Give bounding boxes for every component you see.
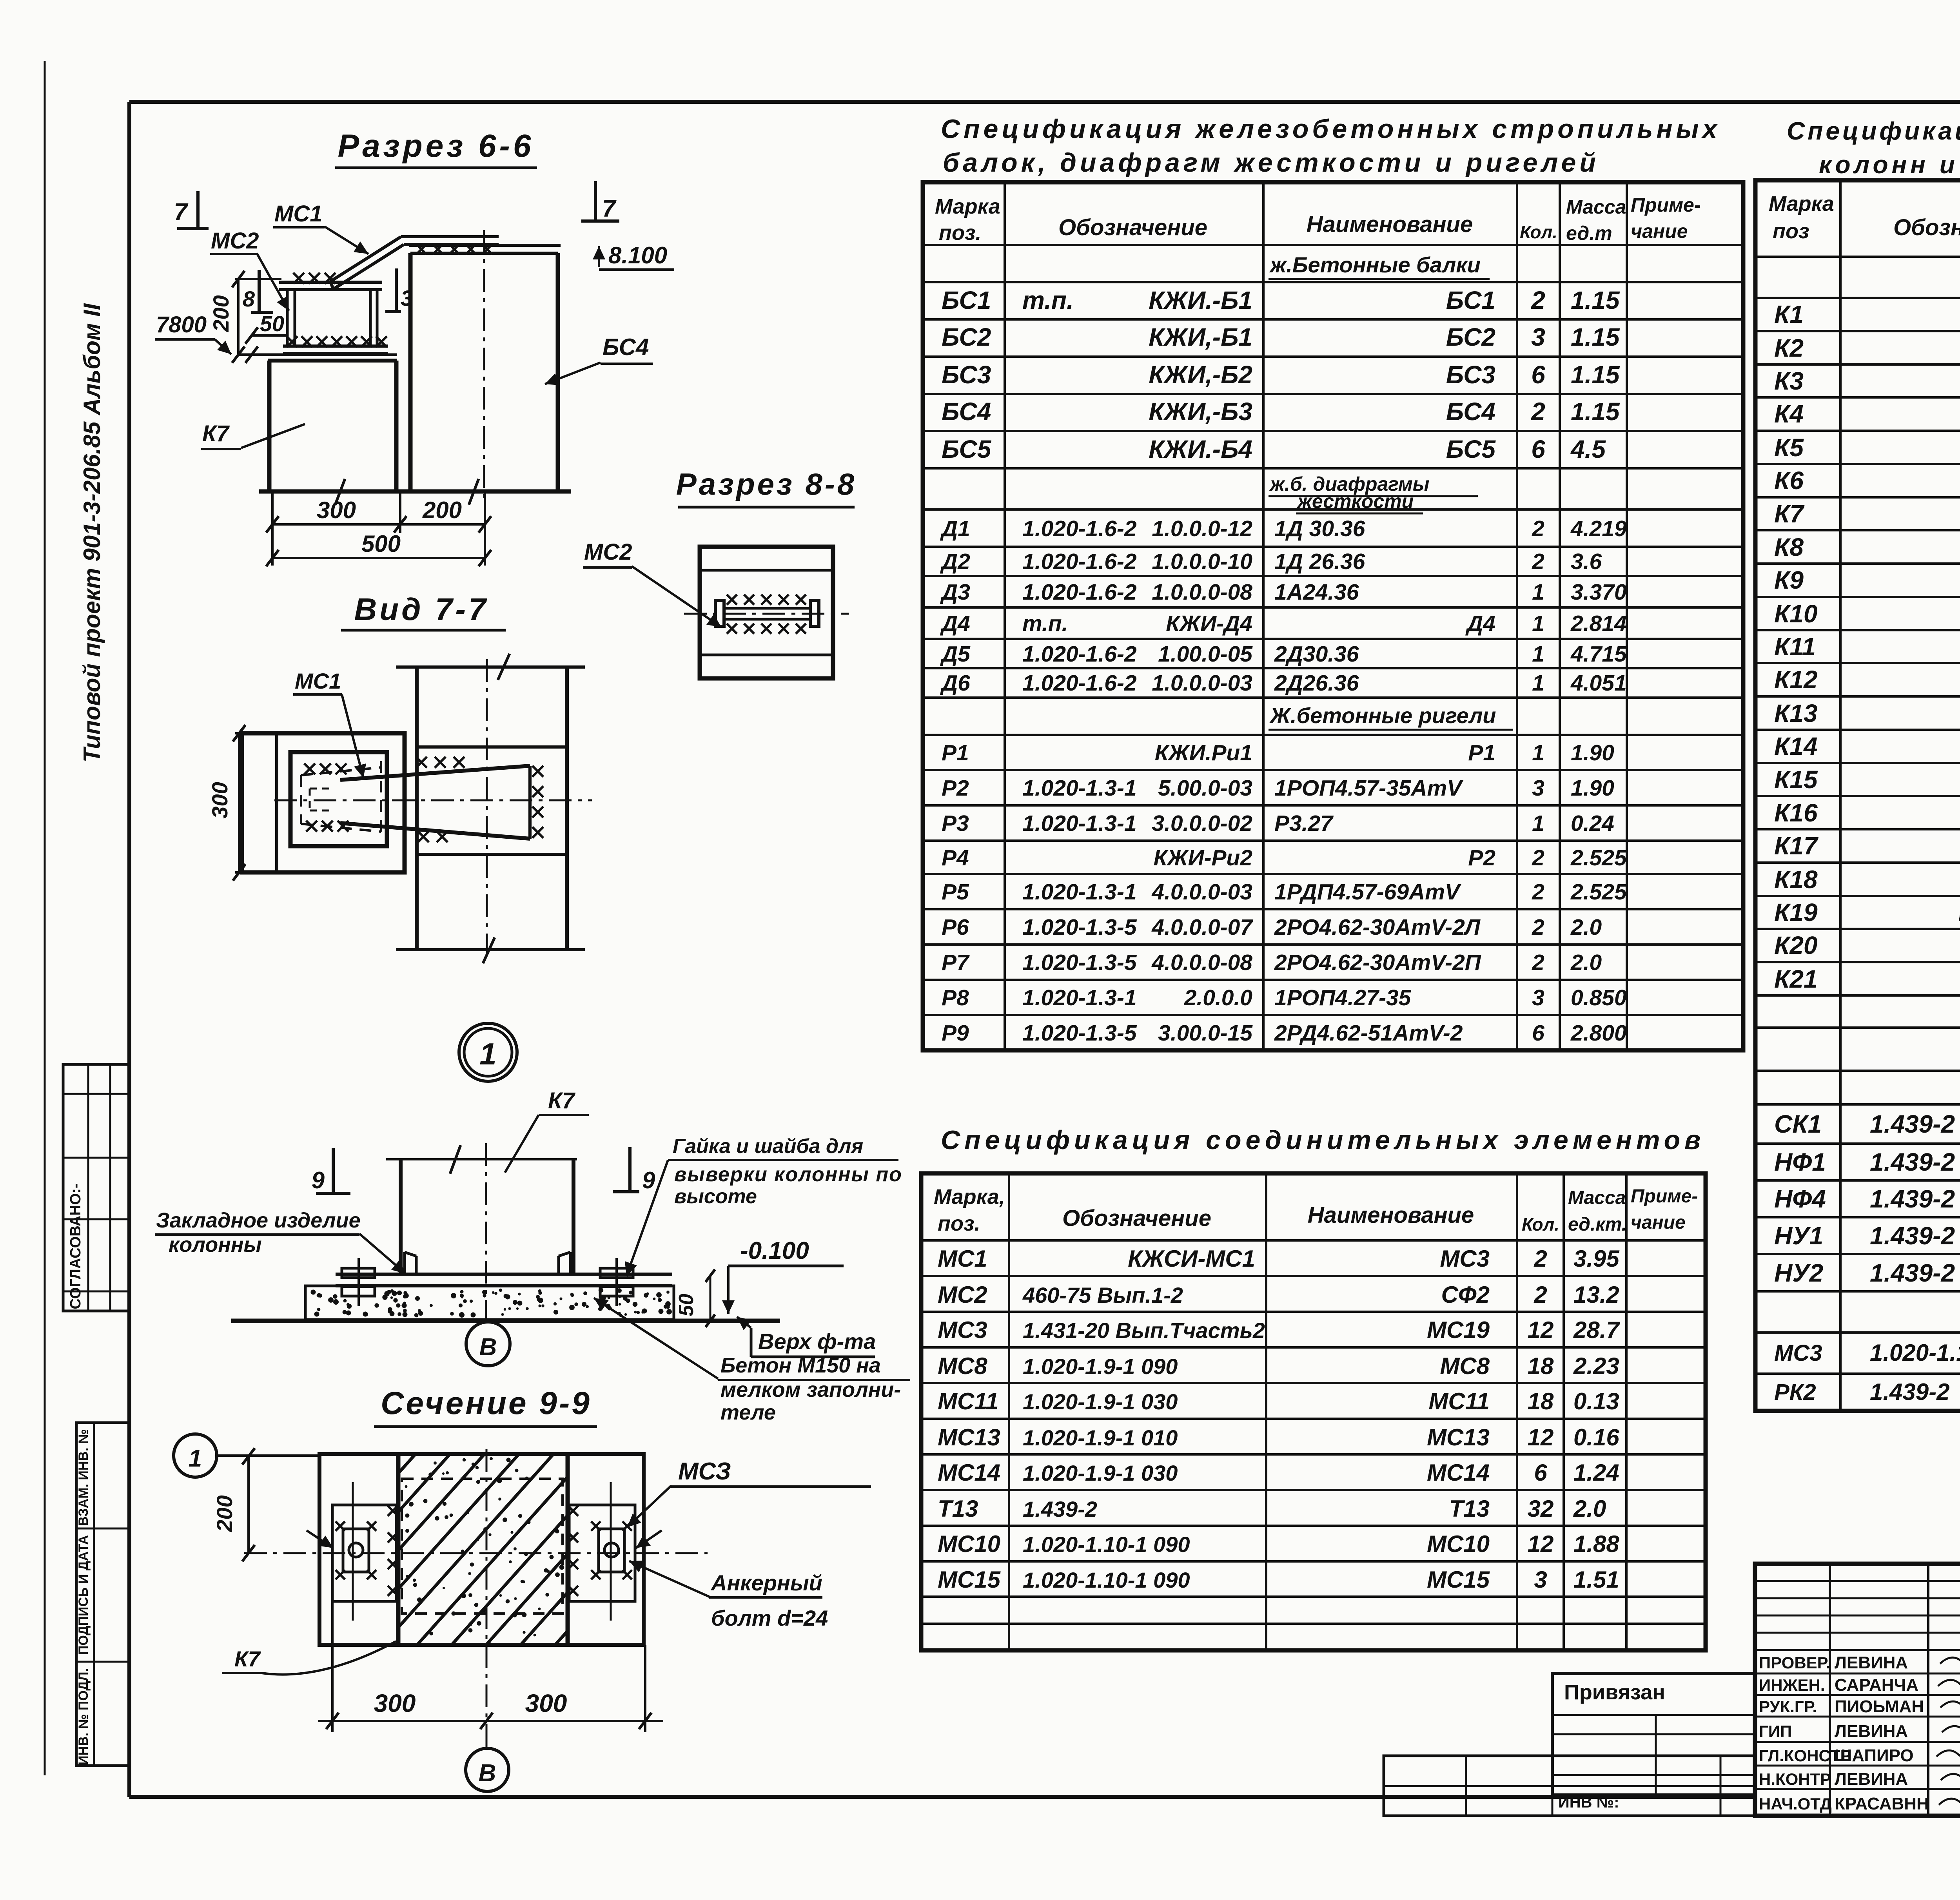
svg-text:2РД4.62-51АтV-2: 2РД4.62-51АтV-2 <box>1274 1021 1463 1046</box>
svg-text:Н.КОНТР: Н.КОНТР <box>1759 1770 1831 1788</box>
svg-text:Спецификация железобетонных: Спецификация железобетонных стропильных <box>941 114 1720 144</box>
svg-text:БС5: БС5 <box>1446 435 1496 463</box>
svg-text:РК2: РК2 <box>1774 1380 1816 1405</box>
svg-text:КЖСИ-МС1: КЖСИ-МС1 <box>1128 1246 1255 1272</box>
svg-text:Наименование: Наименование <box>1307 212 1473 237</box>
svg-text:поз.: поз. <box>939 221 982 245</box>
svg-text:3: 3 <box>1534 1566 1547 1593</box>
svg-text:Д1: Д1 <box>940 516 970 541</box>
svg-text:300: 300 <box>207 782 232 818</box>
svg-text:МС10: МС10 <box>1427 1531 1490 1557</box>
svg-text:Р3.27: Р3.27 <box>1274 811 1334 836</box>
weld x-marks in stakan bottom <box>306 821 317 832</box>
svg-text:1: 1 <box>1532 671 1544 696</box>
svg-text:Разрез 6-6: Разрез 6-6 <box>338 128 534 164</box>
svg-text:6: 6 <box>1534 1459 1547 1486</box>
svg-text:2.23: 2.23 <box>1573 1353 1619 1379</box>
svg-text:1А24.36: 1А24.36 <box>1274 580 1359 605</box>
svg-text:50: 50 <box>260 311 284 336</box>
ground baseline <box>259 490 571 494</box>
svg-text:Р5: Р5 <box>942 879 969 905</box>
svg-text:МС2: МС2 <box>938 1282 987 1308</box>
svg-text:Р1: Р1 <box>942 740 969 765</box>
svg-text:1.020-1.9-1 010: 1.020-1.9-1 010 <box>1023 1425 1178 1450</box>
svg-text:1.020-1.10-1 005: 1.020-1.10-1 005 <box>1870 1340 1960 1366</box>
svg-text:Марка: Марка <box>1769 192 1834 216</box>
svg-text:2.814: 2.814 <box>1570 611 1627 636</box>
column plan verticals <box>415 667 419 950</box>
svg-text:Д2: Д2 <box>940 549 970 574</box>
svg-text:БС1: БС1 <box>942 286 991 314</box>
svg-text:МС3: МС3 <box>1440 1246 1490 1272</box>
svg-text:1.020-1.3-5: 1.020-1.3-5 <box>1022 950 1137 975</box>
svg-text:300: 300 <box>374 1689 416 1717</box>
base plate <box>336 1273 672 1276</box>
left margin stamp СОГЛАСОВАНО <box>63 1064 130 1311</box>
svg-text:Т13: Т13 <box>938 1496 978 1522</box>
svg-text:БС3: БС3 <box>942 361 991 389</box>
svg-text:7: 7 <box>174 199 189 226</box>
svg-text:Р6: Р6 <box>942 915 969 940</box>
svg-text:К2: К2 <box>1774 334 1804 362</box>
svg-text:чание: чание <box>1631 1212 1686 1233</box>
svg-text:МС8: МС8 <box>938 1353 987 1379</box>
svg-text:Р2: Р2 <box>1468 845 1495 870</box>
svg-text:50: 50 <box>675 1294 698 1316</box>
dimension line 300 / 200 <box>272 523 485 526</box>
svg-text:1.020-1.6-2: 1.020-1.6-2 <box>1022 671 1137 696</box>
svg-text:Т13: Т13 <box>1449 1496 1490 1522</box>
svg-text:1.020-1.6-2: 1.020-1.6-2 <box>1022 642 1137 667</box>
svg-text:БС2: БС2 <box>942 323 991 351</box>
axis circle 1 (9-9) <box>174 1434 217 1477</box>
title block signature row lines <box>1755 1673 1960 1675</box>
svg-text:6: 6 <box>1531 361 1545 389</box>
svg-text:2: 2 <box>1532 516 1544 541</box>
left anchor bolt <box>343 1529 369 1572</box>
svg-text:К3: К3 <box>1774 367 1804 395</box>
centerlines plan <box>486 659 488 961</box>
svg-text:КЖИ.-Б1: КЖИ.-Б1 <box>1149 286 1252 314</box>
svg-text:1.020-1.3-1: 1.020-1.3-1 <box>1022 985 1137 1010</box>
column body (node) <box>399 1159 403 1274</box>
svg-text:1: 1 <box>1532 580 1544 605</box>
svg-text:1.431-20 Вып.Тчасть2: 1.431-20 Вып.Тчасть2 <box>1023 1318 1265 1343</box>
svg-text:7800: 7800 <box>156 312 207 337</box>
svg-text:0.16: 0.16 <box>1573 1424 1619 1450</box>
column dashed outline (plan) <box>402 1479 563 1614</box>
svg-text:12: 12 <box>1528 1424 1554 1450</box>
svg-text:Обозначение: Обозначение <box>1893 215 1960 240</box>
svg-text:МС1: МС1 <box>274 201 322 227</box>
svg-text:СФ2: СФ2 <box>1441 1282 1490 1308</box>
svg-text:1.439-2: 1.439-2 <box>1870 1222 1955 1250</box>
svg-text:1.439-2: 1.439-2 <box>1870 1110 1955 1138</box>
svg-text:БС4: БС4 <box>1446 397 1495 426</box>
svg-text:КЖИ,-Б2: КЖИ,-Б2 <box>1149 361 1252 389</box>
column К7 body <box>267 361 272 491</box>
section mark 9 left <box>332 1148 335 1192</box>
svg-text:Анкерный: Анкерный <box>710 1570 822 1595</box>
right anchor plate <box>569 1505 635 1601</box>
svg-text:3.95: 3.95 <box>1573 1246 1620 1272</box>
bench lines on top of К7 <box>238 354 397 356</box>
svg-text:НФ1: НФ1 <box>1774 1148 1826 1176</box>
8-8 beam square <box>700 547 833 678</box>
embedded angle plates <box>403 1252 406 1274</box>
svg-text:ИНВ. № ПОДЛ.: ИНВ. № ПОДЛ. <box>76 1668 91 1765</box>
right table column lines <box>1839 180 1842 1411</box>
svg-text:8: 8 <box>243 286 255 311</box>
svg-text:колонны: колонны <box>169 1233 262 1256</box>
svg-text:460-75 Вып.1-2: 460-75 Вып.1-2 <box>1022 1283 1183 1307</box>
right anchor bolt <box>599 1529 624 1572</box>
svg-text:высоте: высоте <box>674 1185 757 1208</box>
svg-text:Обозначение: Обозначение <box>1058 215 1207 240</box>
left anchor plate МС3 <box>332 1505 396 1601</box>
svg-text:К12: К12 <box>1774 665 1818 694</box>
svg-text:болт d=24: болт d=24 <box>711 1606 828 1630</box>
svg-text:МС11: МС11 <box>938 1388 999 1414</box>
svg-text:1.15: 1.15 <box>1571 323 1620 351</box>
svg-text:1: 1 <box>1532 611 1544 636</box>
svg-text:МС14: МС14 <box>938 1459 1000 1486</box>
svg-text:28.7: 28.7 <box>1573 1317 1620 1343</box>
svg-text:4.0.0.0-07: 4.0.0.0-07 <box>1151 915 1253 940</box>
svg-text:мелком заполни-: мелком заполни- <box>720 1378 901 1401</box>
svg-text:Р7: Р7 <box>942 950 970 975</box>
svg-text:Д4: Д4 <box>1465 611 1495 636</box>
svg-text:Приме-: Приме- <box>1631 1186 1698 1207</box>
svg-text:К7: К7 <box>1774 500 1805 528</box>
svg-text:жесткости: жесткости <box>1296 490 1414 512</box>
svg-text:СК1: СК1 <box>1774 1110 1822 1138</box>
svg-text:КЖИ.-К19: КЖИ.-К19 <box>1958 898 1960 926</box>
svg-text:1.439-2: 1.439-2 <box>1870 1148 1955 1176</box>
svg-text:2: 2 <box>1532 879 1544 905</box>
svg-text:КЖИ.-Б4: КЖИ.-Б4 <box>1149 435 1252 463</box>
svg-text:Р3: Р3 <box>942 811 969 836</box>
svg-text:1.020-1.10-1 090: 1.020-1.10-1 090 <box>1023 1532 1190 1557</box>
svg-text:МС15: МС15 <box>1427 1566 1490 1593</box>
weld x-marks at beam right end <box>532 766 543 777</box>
svg-text:ПОДПИСЬ И ДАТА: ПОДПИСЬ И ДАТА <box>76 1535 91 1655</box>
svg-text:МС11: МС11 <box>1428 1388 1490 1414</box>
weld x-marks in stakan top <box>304 763 315 774</box>
svg-text:1Д 30.36: 1Д 30.36 <box>1274 516 1365 541</box>
svg-text:РУК.ГР.: РУК.ГР. <box>1759 1697 1817 1716</box>
svg-text:ЛЕВИНА: ЛЕВИНА <box>1835 1653 1908 1672</box>
svg-text:ед.кт.: ед.кт. <box>1568 1214 1627 1235</box>
title block top thin rows <box>1755 1580 1960 1582</box>
svg-text:выверки колонны по: выверки колонны по <box>674 1163 902 1186</box>
svg-text:т.п.: т.п. <box>1022 611 1068 636</box>
svg-text:ЛЕВИНА: ЛЕВИНА <box>1835 1769 1908 1789</box>
svg-text:К5: К5 <box>1774 433 1804 462</box>
svg-text:1: 1 <box>189 1445 202 1472</box>
svg-text:32: 32 <box>1528 1496 1554 1522</box>
svg-text:ИНВ №:: ИНВ №: <box>1558 1794 1619 1811</box>
svg-text:КЖИ,-Б3: КЖИ,-Б3 <box>1149 397 1252 426</box>
elevation mark 8.100 <box>598 246 600 267</box>
svg-text:1РОП4.57-35АтV: 1РОП4.57-35АтV <box>1274 776 1463 801</box>
svg-text:К14: К14 <box>1774 732 1818 760</box>
svg-text:МСЗ: МСЗ <box>678 1458 731 1485</box>
anchor loop dashes <box>310 788 333 790</box>
svg-text:6: 6 <box>1532 1021 1544 1046</box>
8-8 bolt rod <box>722 607 812 610</box>
svg-text:Обозначение: Обозначение <box>1062 1206 1211 1231</box>
svg-text:МС13: МС13 <box>938 1424 1000 1450</box>
bottom table outer frame <box>921 1173 1706 1650</box>
axis circle В (node) <box>466 1322 510 1366</box>
svg-text:200: 200 <box>422 497 462 523</box>
svg-text:Марка: Марка <box>935 195 1000 218</box>
svg-text:ШАПИРО: ШАПИРО <box>1835 1746 1914 1765</box>
svg-text:МС15: МС15 <box>938 1566 1001 1593</box>
svg-text:К17: К17 <box>1774 832 1819 860</box>
svg-text:КЖИ.Ри1: КЖИ.Ри1 <box>1155 740 1252 765</box>
svg-text:Д5: Д5 <box>940 642 971 667</box>
svg-text:БС3: БС3 <box>1446 361 1495 389</box>
grout concrete pad <box>305 1286 674 1320</box>
left margin stamp ИНВ/ПОДПИСЬ cells <box>76 1423 130 1766</box>
svg-text:1.439-2: 1.439-2 <box>1023 1497 1097 1521</box>
svg-text:2: 2 <box>1532 950 1544 975</box>
break marks column plan <box>498 654 510 680</box>
section mark 3 <box>395 268 398 312</box>
svg-text:Р4: Р4 <box>942 845 969 870</box>
svg-text:Вид 7-7: Вид 7-7 <box>354 592 489 627</box>
svg-text:Наименование: Наименование <box>1308 1202 1474 1228</box>
svg-text:КЖИ,-Б1: КЖИ,-Б1 <box>1149 323 1252 351</box>
svg-text:чание: чание <box>1631 220 1688 242</box>
weld x-marks on column wall bottom <box>418 831 429 842</box>
8-8 bolt centerline <box>684 613 849 615</box>
svg-text:Марка,: Марка, <box>934 1185 1005 1209</box>
svg-text:К18: К18 <box>1774 865 1818 894</box>
column centerline (node) <box>485 1143 487 1320</box>
МС2 assembly posts <box>286 290 289 346</box>
svg-text:МС3: МС3 <box>1774 1340 1822 1366</box>
svg-text:1.15: 1.15 <box>1571 286 1620 314</box>
svg-text:ПИОЬМАН: ПИОЬМАН <box>1835 1697 1924 1716</box>
svg-text:НУ2: НУ2 <box>1774 1259 1823 1287</box>
section mark 7 left <box>196 191 200 228</box>
Привязан box <box>1552 1673 1755 1795</box>
svg-text:МС10: МС10 <box>938 1531 1000 1557</box>
svg-text:1.15: 1.15 <box>1571 397 1620 426</box>
svg-text:ПРОВЕР.: ПРОВЕР. <box>1759 1653 1830 1672</box>
svg-text:поз.: поз. <box>938 1212 980 1235</box>
svg-text:1.020-1.3-1: 1.020-1.3-1 <box>1022 811 1137 836</box>
8-8 bolt end plates <box>715 600 724 626</box>
svg-text:поз: поз <box>1773 219 1809 243</box>
svg-text:1.439-2: 1.439-2 <box>1870 1185 1955 1213</box>
svg-text:2.0: 2.0 <box>1570 950 1602 975</box>
svg-text:Д3: Д3 <box>940 580 970 605</box>
beam БС4 top plate with weld x-marks <box>409 244 561 247</box>
svg-text:В: В <box>479 1334 497 1361</box>
svg-text:1.020-1.3-5: 1.020-1.3-5 <box>1022 915 1137 940</box>
svg-text:НАЧ.ОТД: НАЧ.ОТД <box>1759 1795 1832 1813</box>
svg-text:1Д 26.36: 1Д 26.36 <box>1274 549 1365 574</box>
svg-text:К13: К13 <box>1774 699 1818 727</box>
svg-text:12: 12 <box>1528 1531 1554 1557</box>
column plan horizontals <box>396 665 585 669</box>
svg-text:Типовой проект 901-3-206.85: Типовой проект 901-3-206.85 Альбом II <box>79 303 105 762</box>
svg-text:3: 3 <box>1532 776 1544 801</box>
svg-text:Р2: Р2 <box>942 776 969 801</box>
svg-text:К19: К19 <box>1774 898 1818 926</box>
svg-text:3.6: 3.6 <box>1571 549 1602 574</box>
svg-text:0.24: 0.24 <box>1571 811 1614 836</box>
svg-text:1.51: 1.51 <box>1573 1566 1619 1593</box>
svg-text:1.020-1.3-1: 1.020-1.3-1 <box>1022 879 1137 905</box>
svg-text:БС2: БС2 <box>1446 323 1495 351</box>
svg-text:0.850: 0.850 <box>1571 985 1627 1010</box>
svg-text:МС3: МС3 <box>938 1317 987 1343</box>
axis circle В (9-9) <box>466 1748 509 1791</box>
svg-text:2.0: 2.0 <box>1573 1496 1606 1522</box>
base plate plan outline <box>319 1454 644 1645</box>
svg-text:12: 12 <box>1528 1317 1554 1343</box>
svg-text:1.439-2: 1.439-2 <box>1870 1259 1955 1287</box>
svg-text:Бетон М150 на: Бетон М150 на <box>720 1354 881 1377</box>
svg-text:2.525: 2.525 <box>1570 879 1627 905</box>
svg-text:2.0.0.0: 2.0.0.0 <box>1184 985 1253 1010</box>
svg-text:1: 1 <box>1532 740 1544 765</box>
svg-text:Разрез 8-8: Разрез 8-8 <box>676 467 857 501</box>
svg-text:6: 6 <box>1531 435 1545 463</box>
label Верх ф-та <box>750 1328 753 1357</box>
svg-text:300: 300 <box>525 1689 567 1717</box>
svg-text:ВЗАМ. ИНВ. №: ВЗАМ. ИНВ. № <box>76 1429 91 1526</box>
middle table row lines <box>923 244 1743 246</box>
svg-text:К16: К16 <box>1774 799 1818 827</box>
svg-text:Масса: Масса <box>1566 196 1626 218</box>
svg-text:1: 1 <box>1532 811 1544 836</box>
svg-text:Спецификация соединительных: Спецификация соединительных элементов <box>941 1125 1705 1155</box>
svg-text:БС4: БС4 <box>603 334 649 360</box>
МС2 assembly bottom plate <box>283 344 388 348</box>
svg-text:1.90: 1.90 <box>1571 776 1614 801</box>
svg-text:БС5: БС5 <box>942 435 992 463</box>
svg-text:КЖИ-Ри2: КЖИ-Ри2 <box>1154 845 1253 870</box>
svg-text:13.2: 13.2 <box>1573 1282 1619 1308</box>
svg-text:2: 2 <box>1532 845 1544 870</box>
svg-text:В: В <box>479 1760 496 1787</box>
section mark 7 right <box>594 181 597 219</box>
svg-text:8.100: 8.100 <box>608 242 667 268</box>
svg-text:ИНЖЕН.: ИНЖЕН. <box>1759 1676 1825 1694</box>
svg-text:1.88: 1.88 <box>1573 1531 1619 1557</box>
svg-text:КРАСАВНН: КРАСАВНН <box>1835 1794 1929 1813</box>
svg-text:колонн и соединительных эле: колонн и соединительных элементов <box>1819 150 1960 179</box>
8-8 weld x-marks <box>727 595 737 605</box>
beam end dashed outline in stakan <box>300 775 302 824</box>
weld x-marks on bottom plate <box>287 336 298 347</box>
svg-text:К7: К7 <box>234 1646 261 1671</box>
svg-text:К9: К9 <box>1774 566 1804 594</box>
svg-text:200: 200 <box>212 1495 237 1532</box>
beam plan solid edges <box>340 766 530 780</box>
svg-text:1.020-1.6-2: 1.020-1.6-2 <box>1022 580 1137 605</box>
svg-text:1РДП4.57-69АтV: 1РДП4.57-69АтV <box>1274 879 1461 905</box>
svg-text:МС2: МС2 <box>211 228 259 254</box>
svg-text:Д6: Д6 <box>940 671 970 696</box>
svg-text:1.24: 1.24 <box>1573 1459 1619 1486</box>
svg-text:Привязан: Привязан <box>1564 1681 1665 1704</box>
svg-text:Спецификация сборных железоб: Спецификация сборных железобетонных и ст… <box>1787 117 1960 145</box>
svg-text:2: 2 <box>1534 1282 1547 1308</box>
svg-text:2Д26.36: 2Д26.36 <box>1274 671 1359 696</box>
svg-text:Гайка и шайба для: Гайка и шайба для <box>673 1135 863 1158</box>
svg-text:Р9: Р9 <box>942 1021 969 1046</box>
svg-text:0.13: 0.13 <box>1573 1388 1619 1414</box>
svg-text:САРАНЧА: САРАНЧА <box>1835 1675 1918 1695</box>
svg-text:3: 3 <box>401 286 413 310</box>
svg-text:К15: К15 <box>1774 765 1818 794</box>
section mark 9 right <box>628 1147 632 1192</box>
right table row lines <box>1755 256 1960 258</box>
svg-text:4.5: 4.5 <box>1570 435 1606 463</box>
svg-text:СОГЛАСОВАНО:-: СОГЛАСОВАНО:- <box>67 1183 84 1309</box>
svg-text:9: 9 <box>312 1167 325 1193</box>
svg-text:МС1: МС1 <box>938 1246 987 1272</box>
svg-text:ГИП: ГИП <box>1759 1722 1792 1740</box>
svg-text:1.020-1.9-1 030: 1.020-1.9-1 030 <box>1023 1389 1178 1414</box>
svg-text:Ж.бетонные ригели: Ж.бетонные ригели <box>1269 703 1496 728</box>
centerlines 9-9 <box>244 1552 708 1554</box>
svg-text:3.370: 3.370 <box>1571 580 1627 605</box>
bottom table column lines <box>1008 1173 1010 1650</box>
svg-text:МС19: МС19 <box>1427 1317 1490 1343</box>
title block outer frame <box>1755 1564 1960 1816</box>
svg-text:2.800: 2.800 <box>1570 1021 1627 1046</box>
svg-text:18: 18 <box>1528 1353 1554 1379</box>
svg-text:Сечение 9-9: Сечение 9-9 <box>381 1385 592 1421</box>
svg-text:1: 1 <box>479 1037 496 1071</box>
svg-text:7: 7 <box>602 195 617 222</box>
svg-text:Р1: Р1 <box>1468 740 1495 765</box>
page border frame <box>129 100 1960 104</box>
svg-text:Кол.: Кол. <box>1520 222 1557 242</box>
svg-text:300: 300 <box>317 497 356 523</box>
right table outer frame <box>1755 180 1960 1411</box>
svg-text:500: 500 <box>361 531 401 557</box>
svg-text:2: 2 <box>1531 397 1545 426</box>
svg-text:1.90: 1.90 <box>1571 740 1614 765</box>
break marks on baseline <box>335 479 345 505</box>
svg-text:3.0.0.0-02: 3.0.0.0-02 <box>1152 811 1252 836</box>
dimension extension lines <box>271 491 274 566</box>
svg-text:1.0.0.0-10: 1.0.0.0-10 <box>1152 549 1252 574</box>
svg-text:К1: К1 <box>1774 300 1804 328</box>
svg-text:Приме-: Приме- <box>1631 194 1701 216</box>
svg-text:НУ1: НУ1 <box>1774 1222 1823 1250</box>
svg-text:1.15: 1.15 <box>1571 361 1620 389</box>
svg-text:1: 1 <box>1532 642 1544 667</box>
svg-text:К8: К8 <box>1774 533 1804 561</box>
middle table outer frame <box>923 182 1743 1050</box>
section mark 8 <box>258 270 261 313</box>
title block left grid columns <box>1829 1564 1831 1816</box>
ИНВ cells left of title block <box>1384 1756 1755 1816</box>
svg-text:МС13: МС13 <box>1427 1424 1490 1450</box>
svg-text:3.00.0-15: 3.00.0-15 <box>1158 1021 1253 1046</box>
svg-text:2: 2 <box>1531 286 1545 314</box>
